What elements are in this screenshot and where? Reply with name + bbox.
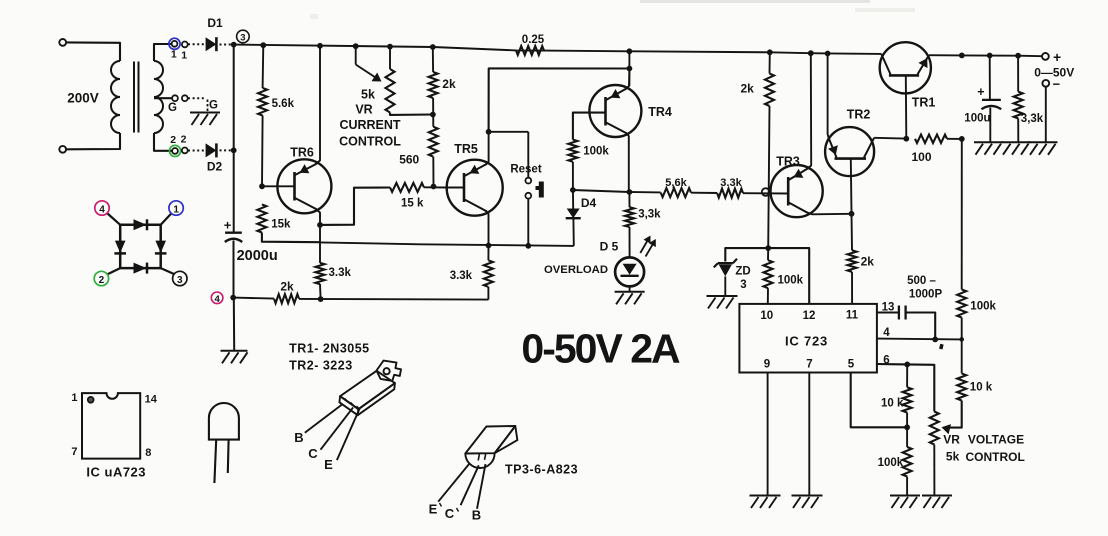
capacitor C 100u [982, 99, 1001, 101]
terminal circle 1b [182, 42, 188, 48]
svg-text:CONTROL: CONTROL [966, 450, 1025, 464]
transistor TR2 [825, 127, 874, 176]
transformer core [133, 62, 135, 133]
wire TR4 collector [628, 51, 630, 86]
wire dotted to D1 [188, 43, 205, 45]
wire to 5.6k [629, 191, 660, 193]
LED D5 [615, 257, 644, 286]
wire 15k to corner [262, 233, 320, 243]
svg-text:1: 1 [171, 49, 177, 61]
wire TR2 base to 2k [851, 214, 854, 251]
svg-text:100k: 100k [970, 301, 996, 313]
junction rail out3 [1015, 53, 1021, 59]
svg-text:7: 7 [806, 359, 812, 371]
svg-text:5k: 5k [361, 88, 375, 102]
resistor R 100k mid [903, 447, 912, 477]
wire 100k mid to ground [906, 477, 908, 496]
bridge node 1 circled [169, 201, 183, 215]
svg-text:10 k: 10 k [881, 398, 904, 410]
junction TR6 base [259, 183, 265, 189]
resistor R 10k right [957, 374, 966, 401]
node 3 junction [231, 42, 237, 48]
svg-text:5.6k: 5.6k [272, 98, 295, 110]
svg-text:VR: VR [355, 103, 372, 117]
svg-text:TP3-6-A823: TP3-6-A823 [505, 463, 578, 477]
wire pin6 down to 10k [906, 364, 908, 387]
IC uA723 package [82, 393, 140, 459]
resistor R 15k horizontal [390, 183, 424, 192]
wire between [691, 192, 717, 194]
node 3 circled label [237, 30, 250, 43]
wire node4 rail left [233, 298, 274, 299]
svg-text:G: G [209, 100, 218, 112]
svg-text:2: 2 [170, 134, 176, 146]
ground pin9 [750, 495, 781, 497]
junction rail TR3 collector [808, 50, 814, 56]
wire VR wiper stub [355, 46, 357, 64]
wire rail to 5.6k [262, 45, 265, 88]
wire 100u bottom [989, 108, 991, 142]
wire cap to node4 [233, 241, 235, 298]
wire primary top [66, 42, 120, 61]
svg-text:100: 100 [911, 150, 931, 164]
junction divider [904, 424, 910, 430]
potentiometer VR 5k [386, 69, 395, 113]
wire pin9 to ground [767, 373, 769, 496]
wire pin4 to 10k right [961, 339, 963, 373]
svg-text:1000P: 1000P [909, 289, 943, 301]
svg-text:0.25: 0.25 [522, 34, 545, 46]
transistor TR5 [447, 160, 503, 216]
svg-text:0-50V 2A: 0-50V 2A [521, 326, 680, 372]
svg-text:100k: 100k [778, 275, 804, 287]
terminal output minus [1042, 80, 1049, 87]
wire dotted G [188, 97, 206, 99]
svg-text:12: 12 [803, 310, 816, 322]
wire TR4 emitter left [573, 190, 630, 192]
transistor TR1 [880, 42, 931, 93]
svg-text:G: G [168, 102, 177, 114]
ground 100u [974, 141, 1003, 143]
resistor R 100k TR4 [568, 140, 577, 162]
svg-text:15 k: 15 k [401, 198, 424, 210]
bridge rectifier diagram [120, 225, 161, 268]
wire 100u top [989, 56, 991, 100]
junction D2 node [231, 147, 237, 153]
svg-text:D4: D4 [581, 196, 597, 210]
wire dotted D2 to node [220, 149, 232, 151]
wire 10k mid to node [906, 413, 908, 428]
wire main left vertical [233, 45, 235, 232]
scan artifact tick [939, 344, 944, 350]
svg-text:TR4: TR4 [648, 105, 672, 119]
resistor R 100 [915, 135, 947, 143]
resistor R 3.3k output [1014, 92, 1023, 119]
svg-text:TR2: TR2 [847, 108, 871, 122]
svg-text:10: 10 [760, 310, 773, 322]
svg-text:D 5: D 5 [600, 240, 619, 254]
svg-text:TR1: TR1 [912, 96, 936, 110]
wire secondary center tap [154, 97, 172, 99]
wire ZD node to 100k [767, 248, 769, 260]
wire 100 node down [961, 139, 963, 290]
capacitor C1 2000u [225, 231, 242, 233]
wire pin4 [877, 338, 962, 341]
junction rail out1 [959, 53, 965, 59]
wire 3.3k TR6 bottom [319, 284, 322, 299]
svg-text:D1: D1 [207, 16, 223, 30]
wire node4 to ground [233, 298, 235, 351]
wire rail to 2k [432, 47, 434, 72]
wire TR4 base [573, 113, 606, 140]
wire 2k to pin11 [851, 272, 853, 304]
junction rail TR6 [317, 43, 323, 49]
svg-text:560: 560 [399, 153, 419, 167]
wire TR6 emitter to 15k horiz [320, 188, 390, 225]
svg-text:TR3: TR3 [776, 155, 800, 169]
ground 100k mid [890, 495, 920, 497]
diode D2 [206, 143, 217, 157]
svg-text:D2: D2 [207, 160, 223, 174]
wire 15k to TR5 base [424, 186, 447, 188]
svg-text:1: 1 [71, 392, 77, 404]
resistor R 10k mid [903, 387, 912, 412]
wire secondary bottom lead [154, 133, 172, 151]
wire pin5 L [851, 373, 907, 428]
svg-text:200V: 200V [67, 91, 99, 106]
diode D4 [572, 190, 574, 209]
resistor R 2k TR3 [765, 74, 774, 107]
bridge node 2 circled [94, 271, 108, 285]
transistor TR4 [589, 85, 641, 137]
junction TR5 emitter [486, 243, 492, 249]
junction 100 node [959, 136, 965, 142]
svg-text:100u: 100u [964, 113, 990, 125]
ground G [190, 112, 220, 114]
wire 100k right to pin4 [961, 318, 963, 340]
transistor TR3 [771, 165, 823, 217]
svg-text:Reset: Reset [510, 164, 541, 176]
svg-text:11: 11 [846, 310, 859, 322]
junction 560 15k [431, 184, 437, 190]
transformer T1 secondary winding [154, 61, 163, 79]
junction rail VR arrow [353, 43, 359, 49]
svg-text:CURRENT: CURRENT [339, 118, 400, 132]
svg-text:3: 3 [740, 279, 746, 291]
svg-text:1: 1 [181, 50, 187, 62]
svg-text:E: E [429, 502, 438, 517]
svg-text:C: C [445, 506, 455, 521]
junction rail TR4 [627, 48, 633, 54]
wire TR6 down [319, 225, 321, 263]
resistor R 3.3k horizontal [717, 189, 743, 198]
wire minus to ground [1045, 87, 1047, 143]
ground output minus [1029, 141, 1058, 143]
wire pin13 [877, 312, 899, 314]
junction 3.3k left bottom [318, 296, 324, 302]
ground node4 [221, 350, 248, 352]
svg-text:E: E [324, 457, 333, 472]
svg-text:3.3k: 3.3k [720, 177, 742, 189]
svg-text:15k: 15k [271, 219, 291, 231]
TO-3 package drawing [377, 361, 402, 381]
svg-text:9: 9 [764, 359, 770, 371]
transformer primary terminal bottom [59, 146, 66, 153]
junction ZD node [765, 245, 771, 251]
wire TR4 emitter to 3.3k [628, 192, 630, 207]
svg-text:TR5: TR5 [454, 142, 478, 156]
wire 100k to pin10 [767, 288, 769, 304]
wire secondary top lead [154, 44, 171, 61]
resistor R 3.3k TR6 [316, 263, 325, 284]
svg-text:100k: 100k [878, 457, 904, 469]
svg-text:+: + [977, 85, 984, 99]
svg-text:5k: 5k [946, 450, 960, 464]
junction rail 2k [430, 44, 436, 50]
wire cap to pin4 node [906, 313, 936, 340]
node 4 circled label [211, 292, 223, 304]
zener diode ZD3 [718, 262, 733, 264]
svg-text:3.3k: 3.3k [329, 267, 352, 279]
svg-text:2000u: 2000u [237, 248, 278, 264]
resistor R 5.6k [258, 88, 267, 116]
wiper arrow 5k VR [356, 65, 377, 79]
wire 10k to wiper [948, 401, 962, 428]
svg-text:500 –: 500 – [907, 275, 936, 287]
svg-text:3,3k: 3,3k [1021, 113, 1044, 125]
wire dashed G stub [207, 100, 209, 112]
svg-text:2k: 2k [861, 255, 875, 269]
wire ZD node to pin12 [768, 248, 809, 304]
svg-text:TR2- 3223: TR2- 3223 [289, 359, 353, 373]
resistor 0.25 [516, 46, 544, 55]
wire 3.3k out bottom [1017, 119, 1019, 143]
resistor R 15k left [257, 205, 266, 233]
node 1 terminal (blue ring) [169, 38, 180, 49]
terminal G circles [172, 95, 178, 101]
junction TR2 base [849, 211, 855, 217]
wire pin7 to ground [808, 373, 810, 496]
svg-text:5,6k: 5,6k [665, 177, 687, 189]
junction rail 5k [387, 44, 393, 50]
bridge node 3 circled [173, 271, 187, 285]
diode D1 [206, 37, 217, 51]
svg-text:TR1- 2N3055: TR1- 2N3055 [289, 342, 370, 356]
svg-text:IC 723: IC 723 [785, 334, 828, 349]
junction reset bottom [525, 243, 531, 249]
wiper arrow VR voltage [942, 424, 952, 434]
svg-text:100k: 100k [583, 146, 609, 158]
svg-text:2: 2 [99, 275, 105, 286]
wire node4 rail right [299, 298, 488, 301]
svg-text:5: 5 [848, 359, 855, 371]
wire base node to TR6 [262, 185, 295, 187]
resistor R 100k pin10 [764, 260, 773, 288]
svg-text:+: + [1053, 49, 1061, 65]
node 2 terminal (green ring) [169, 145, 180, 156]
svg-text:7: 7 [71, 446, 77, 458]
transformer T1 primary winding [111, 61, 120, 79]
wire pin6 [877, 364, 934, 412]
junction TR4 emitter [627, 189, 633, 195]
ground pin7 [792, 495, 823, 497]
wire rail to 3.3k out [1017, 56, 1019, 92]
junction pin4 cap [932, 337, 938, 343]
svg-text:3.3k: 3.3k [450, 270, 473, 282]
svg-text:3: 3 [240, 33, 245, 44]
wire 100 to vertical [947, 138, 962, 140]
wire top rail [234, 45, 882, 54]
svg-text:IC uA723: IC uA723 [86, 465, 146, 480]
svg-text:10 k: 10 k [970, 382, 993, 394]
svg-text:14: 14 [145, 394, 158, 406]
wire 560 to base [432, 157, 434, 187]
junction pin6 [904, 362, 910, 368]
ground 3.3k output [1002, 141, 1031, 143]
switch Reset [527, 132, 529, 178]
wire dotted D1 to node [220, 44, 232, 46]
wire rail to 5k [389, 47, 391, 69]
junction rail out2 [987, 53, 993, 59]
wire 2k TR3 top [769, 52, 771, 73]
wire dotted to D2 [188, 150, 205, 152]
resistor R 560 [429, 127, 438, 157]
wire 100k to D4 [572, 162, 574, 190]
bridge node 4 circled [95, 201, 109, 215]
wire primary bottom [66, 133, 120, 149]
svg-text:ZD: ZD [735, 266, 750, 278]
svg-text:−: − [1053, 77, 1061, 92]
junction rail TR2 [825, 51, 831, 57]
junction TR1 base [903, 136, 909, 142]
resistor R 2k node4 [274, 294, 299, 303]
resistor R 100k right [957, 290, 966, 318]
junction 2k 5k [430, 112, 436, 118]
svg-text:8: 8 [145, 447, 151, 459]
svg-text:C: C [308, 446, 318, 461]
svg-text:B: B [472, 507, 481, 522]
ground LED D5 [615, 291, 645, 293]
wire TR2 collector to TR1 base [874, 137, 906, 140]
junction D4 top [570, 187, 576, 193]
junction rail 5.6k [260, 42, 266, 48]
wire 3.3k to LED [629, 227, 631, 257]
transistor TR6 [277, 159, 331, 213]
wire 3.3k TR5 top [487, 246, 489, 261]
resistor R 3,3K LED [625, 207, 634, 227]
svg-text:+: + [224, 218, 232, 233]
svg-text:2k: 2k [741, 82, 755, 96]
resistor R 5.6k horizontal [661, 188, 691, 197]
capacitor 500-1000P [898, 306, 900, 320]
resistor R 2k [429, 72, 438, 98]
wire to reset [489, 131, 529, 133]
svg-text:4: 4 [214, 294, 220, 305]
potentiometer VR 5k voltage [930, 412, 939, 445]
svg-text:2k: 2k [280, 280, 294, 294]
svg-text:1: 1 [173, 204, 179, 215]
wire divider to 100k [906, 427, 908, 447]
terminal output plus [1042, 53, 1049, 60]
wire 5.6k to base node [261, 116, 264, 187]
ground ZD [707, 295, 738, 297]
wire 3.3k TR5 bottom [487, 287, 489, 300]
junction TR4 collector line [627, 66, 633, 72]
wire 5k bottom [390, 113, 433, 115]
wire hop over loop [743, 192, 788, 194]
resistor R 2k pin11 [848, 250, 857, 272]
terminal circle 2b [182, 148, 188, 154]
svg-text:OVERLOAD: OVERLOAD [544, 264, 608, 276]
junction TR5 collector reset [486, 129, 492, 135]
TP3 package drawing [465, 426, 515, 454]
svg-text:VR: VR [943, 433, 960, 447]
svg-text:3: 3 [177, 275, 183, 286]
wire ZD node left [725, 248, 768, 261]
scan smudge top [640, 0, 870, 3]
svg-text:B: B [294, 430, 303, 445]
svg-text:TR6: TR6 [290, 146, 314, 160]
svg-text:3,3k: 3,3k [638, 209, 661, 221]
LED arrows [640, 238, 649, 254]
wire 2k to 560 [432, 98, 434, 127]
junction TR6 emitter [317, 222, 323, 228]
svg-text:2: 2 [181, 134, 187, 146]
svg-text:2k: 2k [442, 77, 456, 91]
svg-text:VOLTAGE: VOLTAGE [968, 433, 1024, 447]
wire long middle [320, 242, 574, 246]
wire VR to ground [933, 445, 935, 496]
wire TR5 collector up [489, 68, 630, 131]
wire 2k down to ZD node [768, 106, 769, 248]
IC U1 box [739, 304, 877, 373]
junction pin4 right [959, 337, 964, 342]
LED package drawing [209, 403, 239, 440]
svg-text:4: 4 [883, 327, 890, 339]
ground VR [922, 495, 952, 497]
svg-text:4: 4 [99, 204, 105, 215]
node 4 junction [230, 295, 236, 301]
junction rail 2k TR3 [767, 49, 773, 55]
transformer primary terminal top [59, 39, 66, 46]
scan tick marks [440, 503, 442, 507]
svg-text:CONTROL: CONTROL [339, 135, 401, 149]
resistor R 3.3k TR5 [484, 260, 493, 287]
